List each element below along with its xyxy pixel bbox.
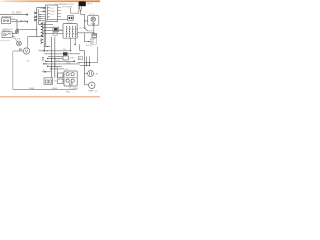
connector chevron 5 <box>41 42 43 44</box>
lid switch S3 <box>84 14 88 31</box>
timer contact dots <box>66 26 76 37</box>
wire bus-timer 1 <box>44 30 63 32</box>
svg-text:TL-SPN: TL-SPN <box>12 11 22 15</box>
wire valve drop <box>93 38 95 39</box>
wire S1 out lower <box>12 35 14 37</box>
left aux box 1 <box>58 73 63 78</box>
power tab blob <box>79 1 86 6</box>
noise filter FL1 <box>2 18 11 24</box>
svg-text:TO POWER: TO POWER <box>62 7 73 9</box>
svg-text:B-W: B-W <box>17 39 21 41</box>
svg-text:GY-B: GY-B <box>29 88 35 90</box>
wire L1 top feed <box>0 14 28 16</box>
ladder vertical V3 <box>56 66 58 77</box>
pump M2 <box>89 82 95 88</box>
aux block K2 <box>53 32 57 35</box>
wire right bus 1 <box>78 62 98 64</box>
right small box <box>78 57 82 60</box>
left aux box 2 <box>58 79 63 84</box>
svg-text:CN2: CN2 <box>54 81 58 83</box>
right vertical v3 <box>97 47 99 63</box>
value labels inside S2 <box>51 8 56 16</box>
svg-text:BK-W: BK-W <box>55 60 60 62</box>
right vertical v1 <box>86 57 88 66</box>
ladder junction dots <box>45 58 55 67</box>
wire M1 left <box>13 50 24 52</box>
ladder row terminals <box>43 58 52 69</box>
stub terminals <box>39 14 40 21</box>
ladder wire 3 <box>48 55 63 57</box>
svg-text:PE1: PE1 <box>66 91 70 93</box>
junction short mid <box>47 46 48 47</box>
wire stub bottom left <box>42 71 52 73</box>
ladder vertical V1 <box>51 37 53 78</box>
plug pin marks <box>91 23 95 24</box>
wire S2 right stubs <box>57 8 61 17</box>
connector chevron 3 <box>34 19 36 21</box>
ladder wire 6 <box>44 63 80 65</box>
wire mid link <box>17 29 37 31</box>
wire to plug box <box>85 20 88 22</box>
wire bus top link <box>37 7 46 9</box>
wire short mid <box>44 46 50 48</box>
selector box <box>63 56 68 60</box>
svg-text:GY-B: GY-B <box>52 88 58 90</box>
drive motor box M3 <box>64 71 77 86</box>
wire lamp drop <box>93 22 95 33</box>
wire diagonal drop <box>14 36 17 42</box>
svg-text:B-WH: B-WH <box>66 63 71 65</box>
ladder wire 1 <box>39 50 71 52</box>
wire pump feed <box>85 84 89 86</box>
ladder wire 2 <box>44 53 80 55</box>
svg-text:WRM: WRM <box>51 11 56 13</box>
junction cutoff <box>88 41 89 42</box>
wire lid bus <box>77 32 94 34</box>
svg-text:-W: -W <box>23 20 26 22</box>
terminal strip TB2 <box>44 78 53 85</box>
wire M1 top riser <box>27 37 29 48</box>
motor windings <box>65 73 76 85</box>
svg-text:PUMP: PUMP <box>88 90 94 92</box>
right vertical v2 <box>89 57 91 66</box>
junction lid-valve <box>93 32 94 33</box>
pressure switch S1 <box>2 32 12 38</box>
relay K1 <box>53 27 59 31</box>
relay core dark <box>63 52 67 55</box>
bus tick terminals <box>41 23 42 36</box>
wire right bus 2 <box>80 65 90 67</box>
wire bus-relay 1 <box>44 24 53 26</box>
bus riser E <box>45 22 47 47</box>
wire to terminal box <box>46 19 67 21</box>
svg-text:AF-2: AF-2 <box>87 3 93 6</box>
contact dots S2 <box>47 7 48 17</box>
grounded outlet symbol <box>91 17 95 21</box>
contact strokes S2 <box>48 7 50 17</box>
timer contacts <box>66 26 76 37</box>
wire right drop A <box>79 44 81 50</box>
junction lid feed <box>84 20 85 21</box>
wire bus riser B <box>39 9 43 24</box>
capacitor C1 <box>88 71 94 77</box>
wire right long drop <box>84 51 86 85</box>
motor feed wires <box>62 73 64 79</box>
junction cluster <box>44 71 46 73</box>
wire motor riser link <box>28 36 43 38</box>
plug box P1 <box>88 16 99 26</box>
svg-text:BU-W: BU-W <box>88 31 93 33</box>
wire bus-relay 2 <box>43 27 53 29</box>
TB2 cell 2 <box>49 80 52 83</box>
right junctions <box>86 62 90 66</box>
relay K1 core <box>54 28 58 31</box>
wire FL1 out lower <box>11 21 28 23</box>
wire bottom return <box>13 88 77 90</box>
wire S2 stub L2 <box>41 10 46 12</box>
wire bus-timer 2 <box>43 33 63 35</box>
connector chevron 2 <box>34 16 36 18</box>
wire S1 out upper <box>12 33 17 35</box>
ladder wire 7 <box>48 65 62 67</box>
connector chevron 4 <box>41 39 43 41</box>
terminal box TB1 <box>68 16 74 21</box>
wire motor drop <box>69 86 71 89</box>
connector chevron 1 <box>34 12 36 14</box>
bus riser C <box>42 22 44 37</box>
lamp DS1 <box>17 41 22 46</box>
terminal marks TB1 <box>69 17 71 19</box>
water valve Y1 <box>92 33 97 37</box>
bus junction dots <box>36 24 45 37</box>
TB2 cell 1 <box>45 80 48 83</box>
wire bus riser A <box>36 8 38 37</box>
wire FL1 out upper <box>11 18 16 20</box>
node circle S2 L1 <box>43 7 44 8</box>
wire valve-cutoff <box>85 33 91 42</box>
wire faint stub <box>0 40 10 42</box>
fuse F1 <box>80 9 85 14</box>
wire long left drop <box>12 52 14 90</box>
svg-text:GY-B: GY-B <box>73 88 79 90</box>
node tick on L1 <box>26 14 28 16</box>
terminal cap drop2 <box>75 44 76 45</box>
ladder wire 5 <box>46 60 74 62</box>
wire top orange rule <box>0 0 100 2</box>
wire timer drop 1 <box>70 38 72 51</box>
fuse F1 ticks <box>80 7 82 9</box>
wire S2 stub L1 <box>41 7 46 9</box>
ladder wire 8 <box>52 68 65 70</box>
resistor R1 <box>16 30 19 33</box>
wire right jog <box>80 50 85 52</box>
wire cap left <box>85 73 88 75</box>
wire timer drop 2 <box>74 38 76 44</box>
wire S2 stub L4 <box>40 19 46 21</box>
ladder vertical V2 <box>54 37 56 78</box>
timer T1 <box>63 24 77 39</box>
thermal cutoff box <box>90 38 96 44</box>
svg-text:W-BK: W-BK <box>70 58 76 60</box>
connection box outline <box>71 4 79 14</box>
tick mid link <box>17 29 18 30</box>
motor M1 <box>23 48 29 54</box>
left bracket marks <box>42 57 44 60</box>
wire S2 stub L3 <box>40 15 46 17</box>
temp switch S2 <box>46 5 58 22</box>
wire bottom orange rule <box>0 96 100 97</box>
ladder wire 4 <box>48 58 63 60</box>
wire riser left <box>16 19 18 33</box>
node circle S2 L2 <box>43 11 44 12</box>
ladder junctions 1 <box>43 50 71 52</box>
bus riser D <box>43 22 45 51</box>
